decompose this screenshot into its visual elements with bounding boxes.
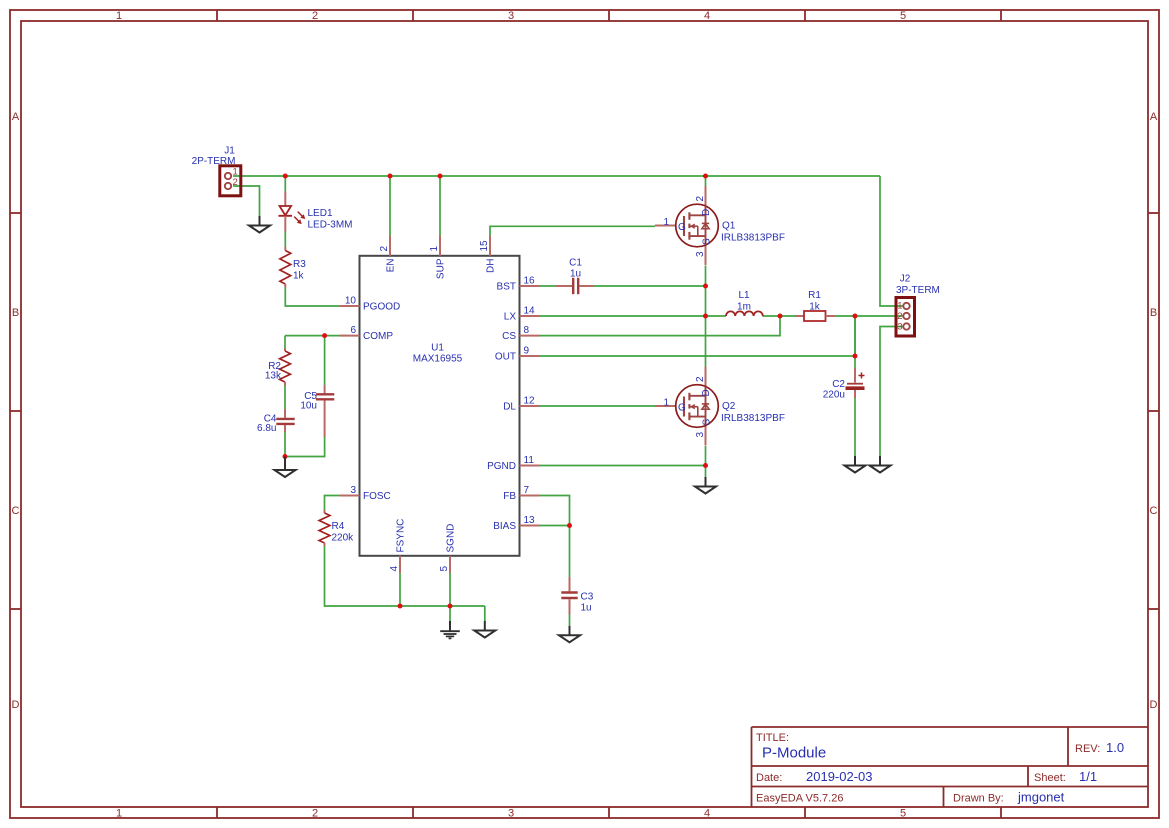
frame left row ticks: [10, 213, 21, 609]
svg-text:4: 4: [704, 10, 710, 22]
svg-text:S: S: [702, 419, 713, 426]
svg-text:10: 10: [345, 296, 357, 307]
ground below Q2 source / PGND: [695, 477, 716, 494]
wire L1 to R1 node: [763, 315, 796, 317]
svg-text:B: B: [12, 307, 19, 319]
svg-text:2: 2: [695, 196, 706, 202]
wire LX to L1: [540, 315, 727, 317]
junction at J1/LED node: [283, 174, 288, 179]
svg-text:5: 5: [900, 10, 906, 22]
svg-text:1: 1: [116, 10, 122, 22]
capacitor C2 plus sign: [859, 373, 865, 379]
wire SUP column: [439, 176, 441, 236]
wire J2 pin3 to ground: [880, 327, 903, 457]
svg-text:13: 13: [524, 515, 536, 526]
transistor Q2 source pin stub: [705, 426, 707, 446]
junction at EN column: [388, 174, 393, 179]
U1 pin 14 LX stub: [520, 315, 540, 317]
wire ground node to C5 bottom: [285, 437, 325, 457]
connector J2 pin 3 circle: [903, 323, 909, 329]
wire OUT node vertical: [854, 316, 856, 356]
capacitor C4 symbol: [276, 409, 294, 432]
svg-text:Q1: Q1: [722, 221, 736, 232]
U1 pin 15 DH stub: [489, 236, 491, 256]
wire EN column: [389, 176, 391, 236]
transistor Q2 gate pin stub: [655, 405, 676, 407]
svg-text:1: 1: [429, 246, 440, 252]
svg-text:C2: C2: [832, 379, 845, 390]
svg-text:1u: 1u: [581, 603, 592, 614]
frame column labels top: [116, 10, 906, 22]
wire FSYNC column: [399, 573, 401, 606]
capacitor C5 symbol: [316, 385, 334, 437]
svg-text:1k: 1k: [809, 302, 821, 313]
U1 pin 3 FOSC stub: [340, 495, 360, 497]
svg-text:EasyEDA V5.7.26: EasyEDA V5.7.26: [756, 793, 843, 805]
ground at bottom rail right: [474, 621, 495, 638]
ground below J1 pin2: [249, 216, 270, 233]
svg-text:SUP: SUP: [436, 258, 447, 279]
wire BIAS node down to C3: [569, 526, 571, 578]
wire LX node down to Q2 drain: [705, 316, 707, 367]
transistor Q1 pin labels: [663, 196, 712, 258]
inductor L1 symbol: [726, 311, 763, 316]
U1 pin 16 BST stub: [520, 285, 540, 287]
wire C2 bottom to ground: [854, 398, 856, 456]
transistor Q1 source pin stub: [705, 245, 707, 265]
svg-text:R1: R1: [808, 290, 821, 301]
svg-text:2: 2: [312, 10, 318, 22]
svg-text:PGND: PGND: [487, 461, 516, 472]
wire top rail drop to J2 pin 1: [880, 176, 903, 306]
svg-text:3: 3: [508, 10, 514, 22]
junction BST/Q1 source: [703, 284, 708, 289]
svg-text:1u: 1u: [570, 269, 581, 280]
svg-text:L1: L1: [738, 290, 750, 301]
svg-text:3: 3: [695, 251, 706, 257]
svg-text:2: 2: [233, 177, 238, 188]
svg-text:TITLE:: TITLE:: [756, 732, 789, 744]
svg-text:SGND: SGND: [446, 524, 457, 553]
junction at Q1 drain rail: [703, 174, 708, 179]
wire C5 top to COMP junction: [324, 336, 326, 385]
junction R1/J2/C2 node: [853, 314, 858, 319]
wire PGND to Q2 source node: [540, 465, 706, 467]
junction SGND bottom rail: [448, 604, 453, 609]
junction OUT/C2: [853, 354, 858, 359]
wire VIN top rail from J1 pin1 to right corner: [233, 175, 880, 177]
svg-text:5: 5: [900, 808, 906, 820]
ground below C3: [559, 626, 580, 643]
U1 pin 8 CS stub: [520, 335, 540, 337]
svg-text:3: 3: [350, 485, 356, 496]
svg-text:14: 14: [524, 306, 536, 317]
transistor Q2 drain pin stub: [705, 367, 707, 387]
U1 pin 6 COMP stub: [340, 335, 360, 337]
resistor R1 symbol: [795, 311, 835, 321]
connector J1 pin 1 circle: [225, 173, 231, 179]
svg-text:G: G: [678, 222, 686, 233]
junction FSYNC bottom rail: [398, 604, 403, 609]
svg-text:2P-TERM: 2P-TERM: [192, 156, 236, 167]
title block outline: [752, 727, 1149, 807]
resistor R2 symbol: [280, 348, 291, 386]
svg-text:J1: J1: [224, 146, 235, 157]
svg-text:1: 1: [897, 301, 902, 312]
svg-text:6: 6: [350, 325, 356, 336]
wire R1 right to J2 pin2: [835, 315, 903, 317]
svg-text:1: 1: [116, 808, 122, 820]
wire C2 node down to C2: [854, 316, 856, 368]
svg-text:LED-3MM: LED-3MM: [308, 220, 353, 231]
svg-text:15: 15: [479, 240, 490, 252]
svg-text:220k: 220k: [332, 533, 355, 544]
connector J2 pin 2 circle: [903, 313, 909, 319]
svg-text:3: 3: [695, 432, 706, 438]
wire OUT to C2 node: [540, 355, 856, 357]
junction FB/BIAS node: [567, 523, 572, 528]
svg-text:C3: C3: [581, 592, 594, 603]
svg-text:9: 9: [524, 346, 530, 357]
wire FB right then down to BIAS node: [540, 496, 570, 526]
svg-text:U1: U1: [431, 343, 444, 354]
wire COMP node down to R2: [284, 336, 286, 348]
svg-text:D: D: [1150, 699, 1158, 711]
ground below J2 pin3: [870, 456, 891, 473]
svg-text:Drawn By:: Drawn By:: [953, 793, 1004, 805]
svg-text:2019-02-03: 2019-02-03: [806, 769, 873, 784]
svg-text:FB: FB: [503, 491, 516, 502]
wire SGND column: [449, 573, 451, 606]
svg-text:D: D: [12, 699, 20, 711]
svg-text:COMP: COMP: [363, 331, 393, 342]
wire PGND node to ground: [705, 466, 707, 478]
svg-text:1/1: 1/1: [1079, 769, 1097, 784]
wire DH to Q1 gate: [490, 226, 655, 235]
U1 pin 4 FSYNC stub: [399, 556, 401, 573]
frame row labels right: [1150, 111, 1158, 711]
wire BIAS to node: [540, 525, 570, 527]
frame column labels bottom: [116, 808, 906, 820]
svg-text:4: 4: [389, 566, 400, 572]
svg-text:DH: DH: [486, 259, 497, 273]
svg-text:220u: 220u: [823, 390, 845, 401]
U1 pin 2 EN stub: [389, 236, 391, 256]
connector J1 pin 2 circle: [225, 183, 231, 189]
svg-text:2: 2: [695, 376, 706, 382]
LED LED1 symbol: [279, 192, 293, 232]
svg-text:BST: BST: [497, 282, 516, 293]
svg-text:A: A: [12, 111, 20, 123]
svg-text:Sheet:: Sheet:: [1034, 772, 1066, 784]
frame right row ticks: [1148, 213, 1159, 609]
svg-text:REV:: REV:: [1075, 743, 1100, 755]
frame bottom column ticks: [217, 807, 1001, 818]
svg-text:DL: DL: [503, 402, 516, 413]
U1 pin 13 BIAS stub: [520, 525, 540, 527]
wire bottom rail to earth ground: [484, 606, 486, 621]
svg-text:IRLB3813PBF: IRLB3813PBF: [721, 413, 785, 424]
svg-text:D: D: [701, 389, 712, 396]
frame row labels left: [12, 111, 20, 711]
svg-text:LED1: LED1: [308, 208, 333, 219]
capacitor C1 symbol: [556, 278, 594, 294]
junction C4/C5 ground node: [283, 454, 288, 459]
wire J1 pin2 to ground: [233, 186, 260, 216]
svg-text:J2: J2: [900, 274, 911, 285]
wire LED to R3: [284, 232, 286, 248]
U1 pin 10 PGOOD stub: [340, 305, 360, 307]
wire COMP to R2/C5 node: [285, 335, 348, 337]
wire C1 to Q1 source node: [594, 285, 706, 287]
junction at SUP column: [438, 174, 443, 179]
svg-text:FSYNC: FSYNC: [396, 519, 407, 553]
transistor Q1 gate pin stub: [655, 225, 676, 227]
svg-text:OUT: OUT: [495, 352, 516, 363]
svg-text:MAX16955: MAX16955: [413, 354, 463, 365]
capacitor C2 polarized symbol: [846, 368, 865, 398]
svg-text:C1: C1: [569, 258, 582, 269]
svg-text:FOSC: FOSC: [363, 491, 391, 502]
svg-text:12: 12: [524, 396, 536, 407]
transistor Q2 pin labels: [663, 376, 712, 438]
wire C3 to ground: [569, 615, 571, 626]
svg-text:S: S: [702, 238, 713, 245]
svg-text:A: A: [1150, 111, 1158, 123]
wire CS to LX node after inductor: [540, 316, 781, 336]
wire R4 to bottom gnd rail: [325, 546, 485, 606]
transistor Q1: [676, 204, 719, 247]
svg-text:B: B: [1150, 307, 1157, 319]
ground below C2: [845, 456, 866, 473]
svg-text:R4: R4: [332, 521, 345, 532]
LED1 emission arrows: [294, 212, 305, 225]
junction PGND/Q2 source: [703, 463, 708, 468]
svg-text:jmgonet: jmgonet: [1017, 790, 1065, 805]
wire FOSC to R4: [325, 496, 341, 511]
wire C4 to ground node: [284, 432, 286, 457]
wire Q1 drain to rail: [705, 176, 707, 187]
connector J2 pin 1 circle: [903, 303, 909, 309]
resistor R4 symbol: [319, 510, 330, 546]
svg-text:11: 11: [524, 455, 535, 466]
svg-text:1: 1: [663, 398, 669, 409]
svg-text:3: 3: [897, 322, 902, 333]
U1 pin 1 SUP stub: [439, 236, 441, 256]
svg-text:D: D: [701, 209, 712, 216]
wire LED column from rail: [284, 176, 286, 192]
svg-text:2: 2: [897, 311, 902, 322]
svg-text:1: 1: [663, 217, 669, 228]
connector J2 pin numbers: [897, 301, 902, 333]
svg-text:C: C: [12, 505, 20, 517]
svg-text:Date:: Date:: [756, 772, 782, 784]
wire Q2 source to PGND node: [705, 446, 707, 466]
transistor Q2: [676, 385, 719, 428]
svg-text:LX: LX: [504, 312, 517, 323]
U1 pin 11 PGND stub: [520, 465, 540, 467]
svg-text:7: 7: [524, 485, 530, 496]
signal ground below SGND: [440, 621, 460, 638]
connector J2 body: [896, 298, 915, 337]
svg-text:R3: R3: [293, 259, 306, 270]
junction COMP/C5: [322, 333, 327, 338]
svg-text:13k: 13k: [265, 371, 282, 382]
svg-text:PGOOD: PGOOD: [363, 302, 400, 313]
svg-text:Q2: Q2: [722, 401, 736, 412]
U1 pin 12 DL stub: [520, 405, 540, 407]
wire Q1 source to BST node: [705, 266, 707, 287]
svg-text:8: 8: [524, 325, 530, 336]
svg-text:G: G: [678, 403, 686, 414]
svg-text:EN: EN: [386, 259, 397, 273]
capacitor C3 symbol: [561, 577, 577, 615]
wire BST node to LX node: [705, 286, 707, 316]
U1 pin 5 SGND stub: [449, 556, 451, 573]
svg-text:P-Module: P-Module: [762, 745, 826, 762]
wire BST to C1: [540, 285, 557, 287]
svg-text:6.8u: 6.8u: [257, 423, 276, 434]
wire R3 to PGOOD: [285, 288, 340, 307]
wire R2 to C4: [284, 386, 286, 410]
svg-text:1.0: 1.0: [1106, 740, 1124, 755]
svg-text:C: C: [1150, 505, 1158, 517]
svg-text:1k: 1k: [293, 271, 305, 282]
U1 pin 9 OUT stub: [520, 355, 540, 357]
frame top column ticks: [217, 10, 1001, 21]
svg-text:5: 5: [439, 566, 450, 572]
svg-text:3P-TERM: 3P-TERM: [896, 285, 940, 296]
resistor R3 symbol: [280, 247, 291, 288]
wire SGND junction to signal ground: [449, 606, 451, 621]
svg-text:IRLB3813PBF: IRLB3813PBF: [721, 233, 785, 244]
svg-text:2: 2: [379, 246, 390, 252]
ground below C4 node: [275, 457, 296, 478]
junction LX/CS after L1: [778, 314, 783, 319]
svg-text:16: 16: [524, 276, 536, 287]
svg-text:10u: 10u: [300, 401, 317, 412]
wire DL to Q2 gate: [540, 405, 656, 407]
svg-text:1m: 1m: [737, 302, 751, 313]
svg-text:BIAS: BIAS: [493, 521, 516, 532]
connector J1 body: [220, 166, 241, 196]
svg-text:2: 2: [312, 808, 318, 820]
op-amp U1 MAX16955 body: [360, 256, 520, 556]
transistor Q1 drain pin stub: [705, 186, 707, 206]
svg-text:3: 3: [508, 808, 514, 820]
svg-text:4: 4: [704, 808, 710, 820]
U1 pin 7 FB stub: [520, 495, 540, 497]
svg-text:CS: CS: [502, 331, 516, 342]
junction LX node: [703, 314, 708, 319]
